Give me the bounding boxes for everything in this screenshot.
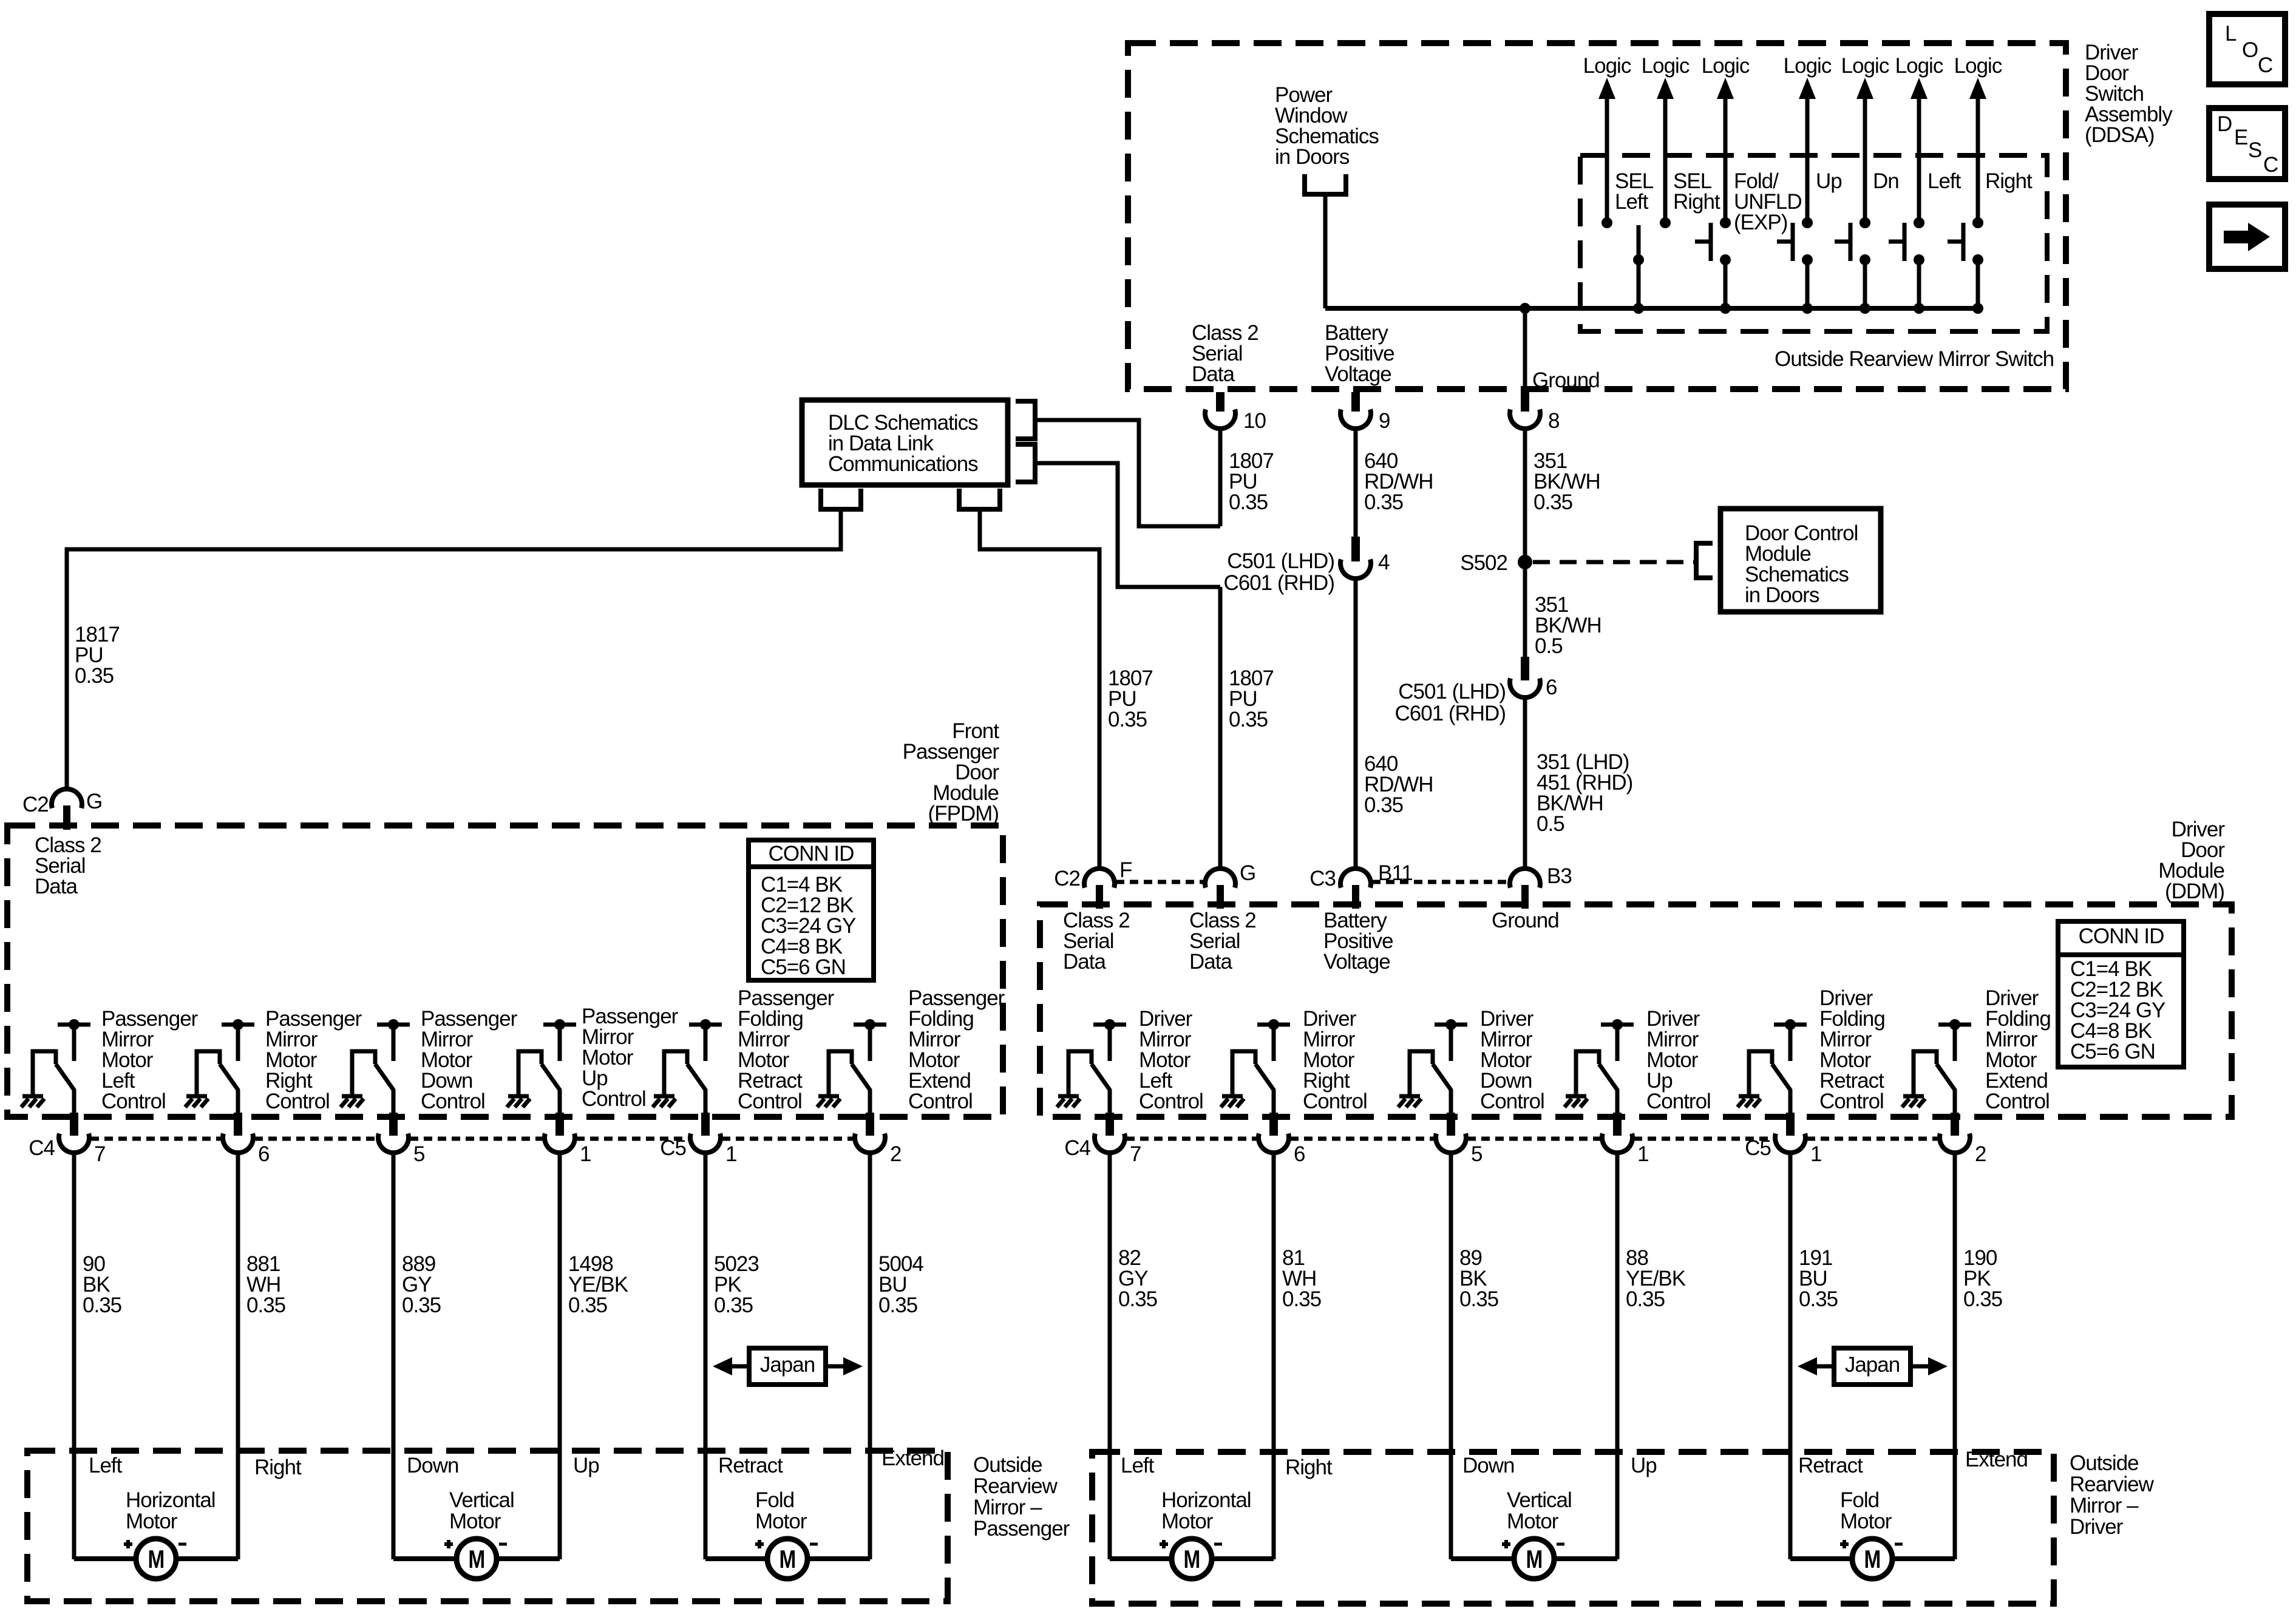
svg-text:Control: Control: [101, 1090, 166, 1113]
svg-text:M: M: [1184, 1545, 1200, 1573]
svg-text:Control: Control: [908, 1090, 973, 1113]
svg-text:C2: C2: [22, 793, 49, 816]
svg-text:7: 7: [1130, 1142, 1141, 1166]
svg-text:C: C: [2263, 153, 2278, 177]
svg-text:Logic: Logic: [1642, 54, 1690, 78]
svg-text:Data: Data: [1063, 950, 1106, 974]
svg-text:Down: Down: [407, 1454, 458, 1477]
svg-text:B3: B3: [1547, 864, 1572, 888]
svg-text:Rearview: Rearview: [2070, 1473, 2155, 1496]
svg-text:Japan: Japan: [760, 1353, 815, 1377]
svg-text:0.35: 0.35: [714, 1293, 753, 1317]
svg-text:Driver: Driver: [2070, 1515, 2124, 1539]
svg-text:0.35: 0.35: [1459, 1287, 1498, 1311]
svg-text:0.35: 0.35: [1364, 793, 1403, 817]
svg-text:Horizontal: Horizontal: [1161, 1488, 1251, 1512]
svg-text:0.35: 0.35: [83, 1293, 121, 1317]
svg-text:S: S: [2248, 138, 2261, 162]
svg-text:M: M: [1526, 1545, 1543, 1573]
svg-text:Extend: Extend: [881, 1446, 944, 1470]
svg-text:Right: Right: [1985, 169, 2033, 193]
svg-text:Left: Left: [1927, 169, 1961, 193]
svg-text:0.35: 0.35: [1118, 1287, 1157, 1311]
svg-text:B11: B11: [1378, 861, 1413, 885]
svg-text:Ground: Ground: [1492, 909, 1559, 932]
svg-text:Communications: Communications: [828, 452, 978, 476]
svg-text:Up: Up: [573, 1454, 599, 1477]
svg-text:10: 10: [1243, 409, 1266, 433]
svg-text:Data: Data: [35, 875, 78, 898]
svg-text:Outside: Outside: [973, 1453, 1042, 1477]
svg-text:C5: C5: [660, 1136, 686, 1160]
svg-text:Control: Control: [738, 1090, 802, 1113]
svg-text:2: 2: [890, 1142, 901, 1166]
svg-text:D: D: [2217, 112, 2232, 136]
svg-text:Logic: Logic: [1954, 54, 2002, 78]
svg-text:Passenger: Passenger: [973, 1517, 1070, 1541]
svg-text:0.35: 0.35: [75, 664, 114, 688]
svg-text:6: 6: [1294, 1142, 1305, 1166]
svg-text:6: 6: [258, 1142, 269, 1166]
svg-text:1: 1: [580, 1142, 591, 1166]
svg-text:L: L: [2225, 22, 2237, 46]
svg-text:C501 (LHD): C501 (LHD): [1227, 549, 1334, 573]
svg-text:(DDM): (DDM): [2165, 880, 2224, 903]
svg-text:0.35: 0.35: [878, 1293, 917, 1317]
svg-text:Retract: Retract: [1798, 1454, 1863, 1477]
svg-text:in Doors: in Doors: [1745, 583, 1819, 607]
svg-text:Dn: Dn: [1873, 169, 1899, 193]
svg-text:Horizontal: Horizontal: [126, 1488, 216, 1512]
svg-text:M: M: [148, 1545, 165, 1573]
svg-text:Vertical: Vertical: [449, 1488, 514, 1512]
svg-text:Control: Control: [421, 1090, 485, 1113]
svg-text:(DDSA): (DDSA): [2085, 123, 2155, 147]
svg-text:0.35: 0.35: [1229, 490, 1268, 514]
svg-text:C501 (LHD): C501 (LHD): [1398, 680, 1506, 703]
svg-text:Outside Rearview Mirror Switch: Outside Rearview Mirror Switch: [1775, 347, 2054, 371]
svg-text:Data: Data: [1192, 362, 1235, 386]
svg-text:Logic: Logic: [1583, 54, 1631, 78]
svg-text:Control: Control: [1819, 1090, 1884, 1113]
svg-text:Outside: Outside: [2070, 1451, 2139, 1475]
svg-text:1: 1: [1637, 1142, 1648, 1166]
svg-text:6: 6: [1546, 676, 1557, 699]
svg-text:C601 (RHD): C601 (RHD): [1223, 571, 1334, 595]
svg-text:0.5: 0.5: [1535, 634, 1563, 658]
svg-text:Mirror –: Mirror –: [2070, 1494, 2139, 1517]
svg-text:Control: Control: [582, 1087, 646, 1111]
svg-text:0.35: 0.35: [1108, 708, 1147, 731]
svg-text:0.35: 0.35: [1533, 490, 1572, 514]
svg-text:M: M: [1864, 1545, 1881, 1573]
svg-text:S502: S502: [1460, 551, 1507, 575]
svg-text:C4: C4: [1064, 1136, 1090, 1160]
svg-text:F: F: [1119, 858, 1132, 882]
svg-text:0.5: 0.5: [1537, 812, 1564, 836]
svg-text:Japan: Japan: [1845, 1353, 1900, 1377]
svg-text:Control: Control: [1480, 1090, 1544, 1113]
svg-text:C5=6 GN: C5=6 GN: [2070, 1040, 2155, 1063]
svg-text:C601 (RHD): C601 (RHD): [1394, 702, 1506, 725]
svg-text:0.35: 0.35: [1626, 1287, 1665, 1311]
svg-text:G: G: [86, 790, 102, 813]
svg-text:4: 4: [1378, 551, 1390, 574]
svg-text:Control: Control: [265, 1090, 330, 1113]
svg-text:Retract: Retract: [718, 1454, 783, 1477]
svg-text:Motor: Motor: [1840, 1510, 1892, 1533]
svg-text:C3: C3: [1309, 867, 1336, 890]
svg-text:Motor: Motor: [1507, 1510, 1559, 1533]
svg-text:9: 9: [1379, 409, 1390, 433]
svg-text:Motor: Motor: [449, 1510, 501, 1533]
svg-text:Control: Control: [1646, 1090, 1711, 1113]
svg-text:M: M: [469, 1545, 485, 1573]
svg-text:Logic: Logic: [1702, 54, 1750, 78]
svg-text:2: 2: [1975, 1142, 1986, 1166]
svg-text:0.35: 0.35: [246, 1293, 285, 1317]
svg-text:0.35: 0.35: [1963, 1287, 2002, 1311]
svg-text:Control: Control: [1139, 1090, 1203, 1113]
svg-text:0.35: 0.35: [1229, 708, 1268, 731]
svg-text:M: M: [779, 1545, 796, 1573]
svg-text:Right: Right: [1673, 190, 1720, 214]
svg-text:Control: Control: [1985, 1090, 2050, 1113]
svg-text:0.35: 0.35: [568, 1293, 607, 1317]
svg-text:G: G: [1240, 861, 1255, 885]
svg-text:1: 1: [1810, 1142, 1821, 1166]
svg-text:5: 5: [1471, 1142, 1482, 1166]
svg-text:5: 5: [413, 1142, 424, 1166]
svg-text:CONN ID: CONN ID: [769, 842, 854, 866]
svg-text:C5: C5: [1745, 1136, 1771, 1160]
svg-text:Right: Right: [1285, 1456, 1333, 1479]
svg-text:8: 8: [1548, 409, 1559, 433]
svg-text:Down: Down: [1462, 1454, 1514, 1477]
svg-text:Ground: Ground: [1532, 368, 1600, 392]
svg-text:Voltage: Voltage: [1323, 950, 1390, 974]
svg-text:C4: C4: [29, 1136, 55, 1160]
svg-text:CONN ID: CONN ID: [2079, 924, 2164, 948]
svg-text:1: 1: [725, 1142, 736, 1166]
svg-text:Voltage: Voltage: [1325, 362, 1391, 386]
svg-text:0.35: 0.35: [1282, 1287, 1321, 1311]
svg-text:(FPDM): (FPDM): [928, 802, 999, 825]
svg-text:Extend: Extend: [1965, 1448, 2028, 1471]
svg-text:Fold: Fold: [755, 1488, 794, 1512]
svg-text:Motor: Motor: [1161, 1510, 1214, 1533]
svg-text:Data: Data: [1189, 950, 1232, 974]
svg-text:C: C: [2258, 53, 2272, 77]
svg-text:Left: Left: [1615, 190, 1649, 214]
svg-text:Up: Up: [1816, 169, 1842, 193]
svg-text:0.35: 0.35: [1799, 1287, 1838, 1311]
svg-text:0.35: 0.35: [1364, 490, 1403, 514]
svg-text:(EXP): (EXP): [1734, 211, 1787, 234]
svg-text:Control: Control: [1303, 1090, 1367, 1113]
svg-text:Logic: Logic: [1784, 54, 1832, 78]
svg-text:0.35: 0.35: [402, 1293, 441, 1317]
svg-text:Motor: Motor: [755, 1510, 807, 1533]
svg-text:C2: C2: [1054, 867, 1080, 890]
svg-text:E: E: [2234, 126, 2247, 149]
svg-text:Mirror –: Mirror –: [973, 1496, 1042, 1519]
svg-text:Up: Up: [1631, 1454, 1657, 1477]
svg-text:Fold: Fold: [1840, 1488, 1879, 1512]
svg-text:Logic: Logic: [1895, 54, 1943, 78]
svg-text:in Doors: in Doors: [1275, 145, 1350, 169]
svg-text:C5=6 GN: C5=6 GN: [761, 955, 846, 979]
svg-text:7: 7: [94, 1142, 105, 1166]
svg-text:O: O: [2242, 38, 2258, 62]
svg-text:Rearview: Rearview: [973, 1474, 1058, 1498]
svg-text:Vertical: Vertical: [1507, 1488, 1572, 1512]
svg-text:Left: Left: [89, 1454, 123, 1477]
svg-text:Motor: Motor: [126, 1510, 178, 1533]
svg-text:Right: Right: [254, 1456, 302, 1479]
svg-text:Left: Left: [1121, 1454, 1155, 1477]
svg-text:Logic: Logic: [1841, 54, 1889, 78]
